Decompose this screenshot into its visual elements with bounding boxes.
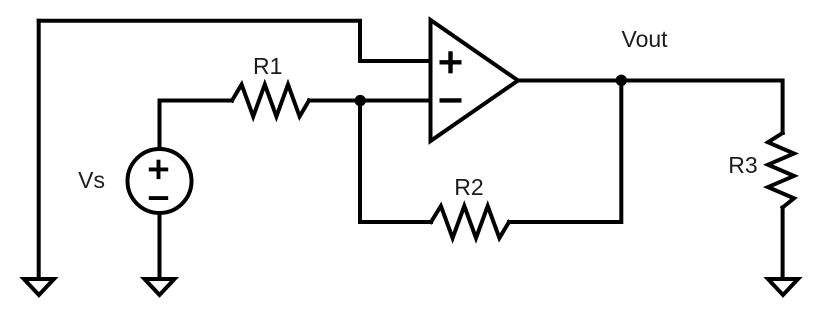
svg-text:Vs: Vs (78, 167, 105, 193)
svg-text:Vout: Vout (622, 26, 669, 52)
svg-text:R3: R3 (728, 152, 757, 178)
svg-text:R1: R1 (253, 53, 282, 79)
svg-text:R2: R2 (454, 174, 483, 200)
